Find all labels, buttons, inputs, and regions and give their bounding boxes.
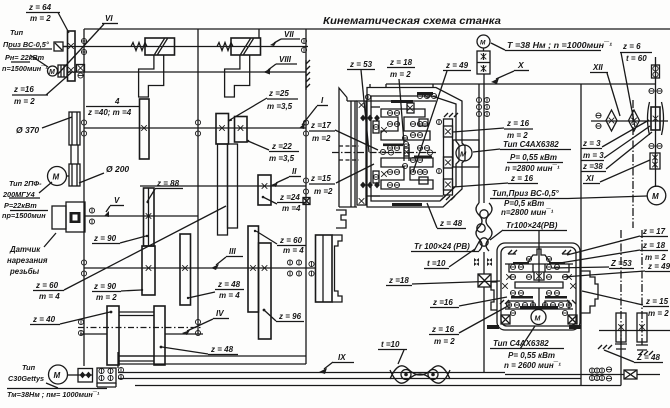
bearing box on housing edge bbox=[303, 198, 310, 205]
svg-text:Тм=38Нм ; nм= 1000мин¯¹: Тм=38Нм ; nм= 1000мин¯¹ bbox=[7, 390, 100, 399]
svg-text:4: 4 bbox=[114, 97, 120, 106]
svg-text:m = 4: m = 4 bbox=[39, 292, 60, 301]
shaft III bbox=[81, 260, 315, 276]
svg-text:Датчик: Датчик bbox=[9, 245, 41, 254]
label IV bbox=[182, 309, 229, 335]
svg-text:Р=22кВт: Р=22кВт bbox=[4, 201, 37, 210]
label z=15 m=2 (shaft II) bbox=[309, 164, 374, 196]
svg-text:m =3,5: m =3,5 bbox=[269, 154, 295, 163]
svg-text:m =4: m =4 bbox=[282, 204, 301, 213]
coupling with diamonds bbox=[78, 369, 93, 383]
svg-text:VI: VI bbox=[105, 14, 113, 23]
svg-text:z = 48: z = 48 bbox=[217, 280, 241, 289]
svg-text:z = 60: z = 60 bbox=[279, 236, 303, 245]
headstock inner wall contour bbox=[371, 96, 459, 201]
gear z=25 m=3,5 bbox=[216, 114, 229, 145]
svg-text:z =16: z =16 bbox=[13, 85, 34, 94]
tailstock bbox=[309, 235, 342, 302]
svg-text:t =10: t =10 bbox=[427, 259, 446, 268]
gear z=16 on shaft VIII bbox=[77, 65, 85, 79]
label z=49 (top) bbox=[413, 61, 471, 172]
brake box with X bbox=[478, 274, 491, 373]
label Тип С4АХ6382 (feed motor) bbox=[490, 326, 564, 370]
svg-text:z = 53: z = 53 bbox=[349, 60, 373, 69]
cross slide screws bottom right bbox=[598, 230, 653, 355]
svg-text:Р= 0,55 кВт: Р= 0,55 кВт bbox=[510, 153, 557, 162]
svg-text:М: М bbox=[480, 40, 486, 47]
label Датчик нарезания резьбы bbox=[7, 233, 56, 276]
svg-text:z =18: z =18 bbox=[388, 276, 409, 285]
label z=48 (headstock bottom) bbox=[427, 203, 466, 229]
svg-text:z =40; m =4: z =40; m =4 bbox=[87, 108, 132, 117]
svg-text:Т =38 Нм ; n =1000мин¯¹: Т =38 Нм ; n =1000мин¯¹ bbox=[507, 41, 612, 50]
label z=16 m=2 bbox=[12, 72, 72, 106]
svg-text:m = 2: m = 2 bbox=[645, 253, 666, 262]
feedbox feet bbox=[487, 325, 499, 329]
svg-text:n=1500мин¯¹: n=1500мин¯¹ bbox=[2, 64, 48, 73]
label z=16 m=2 (headstock rack top) bbox=[453, 119, 533, 140]
svg-text:m = 3: m = 3 bbox=[583, 151, 604, 160]
gear coupling box on rods bbox=[97, 368, 116, 387]
svg-text:IV: IV bbox=[216, 309, 224, 318]
shaft IV bbox=[78, 319, 203, 335]
svg-text:Ø 370: Ø 370 bbox=[16, 125, 39, 135]
wire: long rods at bottom (leadscrew / feed rod / switch rod) bbox=[7, 84, 670, 389]
svg-text:Тип С4АХ6382: Тип С4АХ6382 bbox=[503, 140, 559, 149]
svg-text:Ø 200: Ø 200 bbox=[106, 164, 129, 174]
label z=15 m=2 (right) bbox=[582, 291, 669, 318]
svg-text:z = 96: z = 96 bbox=[278, 312, 302, 321]
label z=25 m=3,5 bbox=[228, 89, 298, 121]
gear z=48 m=4 on shaft III bbox=[180, 234, 191, 305]
svg-text:Приз ВС-0,5°: Приз ВС-0,5° bbox=[3, 40, 49, 49]
svg-text:z = 90: z = 90 bbox=[93, 234, 117, 243]
svg-text:IX: IX bbox=[338, 353, 346, 362]
label t=10 (ballscrew) bbox=[424, 249, 475, 269]
label 4 z=40 m=4 bbox=[86, 97, 139, 117]
svg-text:Р=0,5 кВт: Р=0,5 кВт bbox=[504, 199, 544, 208]
svg-text:m =3,5: m =3,5 bbox=[267, 102, 293, 111]
label z=64 m=2 bbox=[26, 3, 69, 33]
gear z=90 m=2 bbox=[142, 246, 155, 295]
motor M in feed box bbox=[531, 310, 546, 325]
svg-text:z =15: z =15 bbox=[310, 174, 331, 183]
motor M on headstock right bbox=[453, 140, 479, 167]
label Tr100x24(РВ) right bbox=[490, 221, 567, 240]
label z=96 bbox=[263, 309, 304, 322]
shaft VI bbox=[63, 38, 308, 54]
svg-text:М: М bbox=[535, 316, 541, 323]
motor M right bbox=[647, 186, 666, 205]
title: Кинематическая схема станка bbox=[323, 15, 501, 27]
svg-text:z =25: z =25 bbox=[268, 89, 289, 98]
svg-text:z = 18: z = 18 bbox=[642, 241, 666, 250]
shaft II bbox=[140, 178, 309, 194]
label Тип Приз ВС-0,5 motor bbox=[2, 28, 52, 73]
spindle nose and chuck bbox=[339, 88, 359, 207]
label z=48 (bottom right) bbox=[604, 350, 663, 363]
motor M (2ПФ-200МГУ4) bbox=[48, 167, 70, 186]
svg-text:М: М bbox=[460, 150, 467, 159]
label z=53 (top) bbox=[347, 60, 375, 152]
svg-text:V: V bbox=[114, 196, 120, 205]
svg-text:XII: XII bbox=[592, 63, 604, 72]
svg-text:z = 64: z = 64 bbox=[28, 3, 52, 12]
svg-text:z =16: z =16 bbox=[432, 298, 453, 307]
svg-text:z = 90: z = 90 bbox=[93, 282, 117, 291]
label I bbox=[299, 96, 328, 129]
sliding block gears below I bbox=[218, 144, 238, 235]
small gear group on right rod bbox=[589, 367, 611, 381]
svg-text:m =2: m =2 bbox=[314, 187, 333, 196]
svg-text:z =38: z =38 bbox=[582, 162, 603, 171]
svg-text:М: М bbox=[54, 371, 61, 380]
top long line y=84 bbox=[386, 83, 655, 85]
svg-text:m = 2: m = 2 bbox=[507, 131, 528, 140]
label III bbox=[211, 247, 243, 270]
svg-text:m = 2: m = 2 bbox=[14, 97, 35, 106]
label Тип С4АХ6382 (headstock) bbox=[453, 140, 571, 187]
svg-text:z = 3: z = 3 bbox=[582, 139, 601, 148]
gear z=22 m=3,5 bbox=[235, 117, 248, 143]
svg-text:Тип: Тип bbox=[10, 28, 24, 37]
gear z=24 m=4 on shaft II bbox=[258, 175, 271, 205]
vertical line x=198 bbox=[197, 29, 199, 334]
label z=18 m=2 (right) bbox=[560, 241, 668, 263]
label V bbox=[104, 196, 124, 217]
svg-text:n = 2600 мин¯¹: n = 2600 мин¯¹ bbox=[504, 361, 561, 370]
svg-text:z =24: z =24 bbox=[279, 193, 300, 202]
svg-text:Кинематическая схема станка: Кинематическая схема станка bbox=[323, 15, 501, 27]
drum gears z=40 / z=48 on shaft IV bbox=[107, 306, 165, 365]
svg-text:II: II bbox=[292, 167, 297, 176]
label z=6 t=60 bbox=[620, 42, 652, 127]
belt bbox=[71, 145, 78, 164]
label z=24 m=4 bbox=[262, 193, 305, 213]
svg-text:Тr100×24(РВ): Тr100×24(РВ) bbox=[506, 221, 558, 230]
svg-text:z =17: z =17 bbox=[310, 121, 331, 130]
labels z=3 m=3 z=38 XI bbox=[581, 120, 652, 184]
right vertical shaft with gears bbox=[648, 57, 664, 187]
label z=18 (feed) bbox=[386, 276, 500, 286]
belt drive pulley D370 bbox=[69, 112, 80, 145]
svg-text:z = 6: z = 6 bbox=[622, 42, 641, 51]
vertical shafts X area bbox=[476, 74, 489, 203]
svg-text:z = 15: z = 15 bbox=[645, 297, 669, 306]
wall hatch at right end of shaft VIII bbox=[301, 38, 310, 90]
svg-text:m = 2: m = 2 bbox=[96, 293, 117, 302]
svg-text:М: М bbox=[652, 192, 659, 201]
svg-text:III: III bbox=[229, 247, 236, 256]
gear z=96 bbox=[259, 243, 272, 339]
svg-text:VIII: VIII bbox=[279, 55, 292, 64]
feedbox corner bearings bbox=[501, 315, 577, 324]
friction clutch 1 on shaft VI bbox=[131, 38, 175, 97]
small bracket below headstock left bbox=[336, 210, 346, 228]
bevel gear diamond 2 bbox=[629, 110, 640, 131]
svg-text:z =22: z =22 bbox=[271, 142, 292, 151]
label Тип Приз ВС-0,5 (vertical drive) bbox=[490, 189, 647, 217]
label Тип 2ПФ-200МГУ4 bbox=[2, 179, 52, 220]
label IX bbox=[319, 353, 354, 374]
svg-text:m =2: m =2 bbox=[312, 134, 331, 143]
svg-text:z = 48: z = 48 bbox=[210, 345, 234, 354]
svg-text:Z =53: Z =53 bbox=[610, 259, 632, 268]
label z=60 m=4 (right) bbox=[254, 230, 306, 255]
label z=90 m=2 bbox=[92, 282, 143, 302]
label XII bbox=[590, 63, 620, 116]
svg-text:m = 4: m = 4 bbox=[283, 246, 304, 255]
bowtie coupling on rod bbox=[624, 370, 637, 379]
label Tr100x24(РВ) left bbox=[411, 240, 480, 252]
headstock gearbox outline bbox=[357, 84, 465, 207]
svg-text:n =2800 мин¯¹: n =2800 мин¯¹ bbox=[505, 164, 560, 173]
svg-text:С30Gettys: С30Gettys bbox=[8, 374, 44, 383]
label z=16 (feed mid) bbox=[430, 297, 507, 308]
hanger line clutch2 bbox=[258, 29, 260, 38]
shaft V bbox=[85, 208, 198, 224]
shaft XII horizontal bbox=[591, 113, 668, 129]
svg-text:m = 2: m = 2 bbox=[30, 14, 51, 23]
label VIII bbox=[264, 55, 297, 73]
label z=48 m=4 bbox=[187, 280, 244, 300]
label z=90 bbox=[92, 234, 148, 244]
motor M (Приз ВС-0,5) top-left bbox=[48, 65, 68, 77]
headstock inner details bbox=[332, 92, 437, 206]
gear 4: z=40 m=4 bbox=[140, 99, 150, 159]
label II bbox=[271, 167, 301, 187]
gear z=64 column bbox=[68, 31, 76, 81]
svg-text:m = 2: m = 2 bbox=[390, 70, 411, 79]
label z=16 m=2 (feed bottom) bbox=[429, 306, 508, 346]
svg-text:z = 88: z = 88 bbox=[156, 179, 180, 188]
label VI bbox=[58, 14, 118, 74]
centerline XI bbox=[632, 100, 634, 228]
svg-text:Z = 48: Z = 48 bbox=[636, 353, 660, 362]
motor M top (T=38Nm) bbox=[477, 35, 490, 74]
svg-text:z = 16: z = 16 bbox=[506, 119, 530, 128]
svg-text:m = 2: m = 2 bbox=[648, 309, 669, 318]
friction clutch 2 on shaft VI bbox=[217, 38, 261, 97]
svg-text:XI: XI bbox=[585, 174, 594, 183]
label z=48 (drum) bbox=[160, 345, 238, 355]
svg-text:z = 60: z = 60 bbox=[35, 281, 59, 290]
svg-text:М: М bbox=[53, 173, 60, 182]
svg-text:z = 48: z = 48 bbox=[439, 219, 463, 228]
svg-text:t =10: t =10 bbox=[381, 340, 400, 349]
label D200 bbox=[79, 164, 129, 183]
svg-text:z = 49: z = 49 bbox=[647, 262, 670, 271]
svg-text:Тr 100×24 (РВ): Тr 100×24 (РВ) bbox=[414, 242, 470, 251]
feed gearbox (apron) bbox=[491, 230, 598, 330]
label Тип С30Gettys bbox=[8, 363, 58, 388]
svg-text:z = 40: z = 40 bbox=[32, 315, 56, 324]
svg-text:n=2800 мин¯¹: n=2800 мин¯¹ bbox=[501, 208, 554, 217]
svg-text:VII: VII bbox=[284, 30, 295, 39]
label z=49 (right) bbox=[563, 262, 670, 277]
shaft I bbox=[81, 120, 308, 136]
label Tm=38Nm bbox=[7, 390, 100, 399]
pulley D200 bbox=[69, 164, 80, 186]
label z=17 m=2 bbox=[309, 121, 378, 150]
svg-text:Р= 0,55 кВт: Р= 0,55 кВт bbox=[508, 351, 555, 360]
svg-text:m = 4: m = 4 bbox=[219, 291, 240, 300]
ballscrew Tr100x24 vertical chain bbox=[476, 203, 492, 251]
svg-text:М: М bbox=[49, 69, 55, 76]
label z=88 bbox=[147, 179, 183, 203]
svg-text:z = 17: z = 17 bbox=[642, 227, 666, 236]
label VII bbox=[270, 30, 300, 46]
label z=22 m=3,5 bbox=[247, 140, 299, 163]
svg-text:t = 60: t = 60 bbox=[626, 54, 647, 63]
label z=17 (right) bbox=[567, 227, 668, 255]
thread sensor (Датчик нарезания резьбы) bbox=[52, 202, 85, 232]
motor M (C30Gettys) bottom-left bbox=[49, 365, 79, 384]
svg-text:nр=1500мин: nр=1500мин bbox=[2, 211, 46, 220]
headstock right gear rack bbox=[436, 113, 458, 200]
gear z=60 m=4 on shaft III bbox=[248, 226, 259, 312]
svg-text:m = 2: m = 2 bbox=[434, 337, 455, 346]
label z=40 bbox=[30, 311, 112, 325]
svg-text:Тип: Тип bbox=[22, 363, 36, 372]
svg-text:нарезания: нарезания bbox=[7, 256, 48, 265]
left gearbox housing frame bbox=[84, 29, 670, 368]
label Z=53 (right) bbox=[552, 259, 634, 269]
label D370 bbox=[16, 117, 72, 135]
label z=18 m=2 (top) bbox=[387, 58, 415, 143]
bevel gear diamond 1 bbox=[606, 110, 617, 131]
svg-text:Тип,Приз ВС-0,5°: Тип,Приз ВС-0,5° bbox=[492, 189, 560, 198]
shaft VIII bbox=[67, 70, 306, 75]
gear z=88 / z=90 column bbox=[144, 188, 155, 246]
bowtie flags under ballscrew bbox=[474, 252, 492, 274]
svg-text:z = 16: z = 16 bbox=[510, 174, 534, 183]
one-way clutch box on shaft VI left bbox=[54, 42, 68, 51]
svg-text:z = 16: z = 16 bbox=[431, 325, 455, 334]
label z=60 m=4 (left) bbox=[33, 206, 226, 301]
svg-text:z = 49: z = 49 bbox=[445, 61, 469, 70]
svg-text:резьбы: резьбы bbox=[9, 267, 40, 276]
label T=38Nm bbox=[491, 41, 612, 51]
svg-text:z = 18: z = 18 bbox=[389, 58, 413, 67]
label X bbox=[491, 60, 529, 84]
label t=10 (bottom chain) bbox=[378, 340, 407, 364]
svg-text:Тип 2ПФ-: Тип 2ПФ- bbox=[9, 179, 42, 188]
horizontal chain t=10 bottom bbox=[390, 366, 450, 383]
